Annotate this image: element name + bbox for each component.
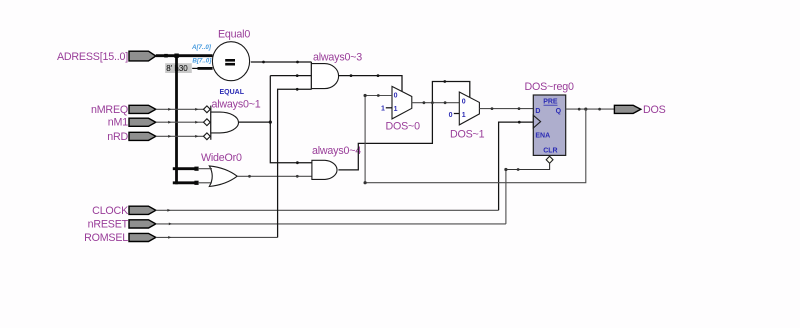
wire DOS~0 output to DOS~1	[412, 101, 460, 104]
svg-text:nMREQ: nMREQ	[91, 104, 128, 116]
svg-text:DOS~0: DOS~0	[386, 120, 421, 132]
svg-text:ROMSEL: ROMSEL	[84, 232, 128, 244]
constant 0 for DOS~1	[449, 112, 460, 119]
svg-text:nRESET: nRESET	[88, 219, 129, 231]
input pin CLOCK	[92, 205, 156, 217]
wire bus stub to WideOr0 input 1	[173, 167, 212, 171]
wire always0~3 output to DOS~0 select	[339, 74, 402, 91]
constant 8'h30	[165, 63, 198, 73]
wire WideOr0 output	[237, 175, 312, 178]
mux DOS~1	[450, 92, 485, 140]
wire DOS~1 output to register D	[479, 107, 533, 110]
or-gate WideOr0	[201, 152, 242, 187]
node CLR bubble	[546, 156, 553, 163]
svg-text:DOS~reg0: DOS~reg0	[525, 81, 574, 93]
svg-text:nM1: nM1	[108, 117, 128, 129]
wire Q feedback loop to DOS~0 input 0	[364, 94, 586, 184]
wire CLR to nRESET riser	[504, 163, 549, 171]
wire Equal0 output to always0~3	[251, 61, 312, 64]
output pin DOS	[614, 104, 665, 116]
input pin nM1	[108, 117, 156, 129]
and-gate always0~4	[312, 145, 361, 180]
and-gate always0~1	[204, 99, 261, 140]
wire always0~1 output	[239, 121, 272, 124]
wire to always0~3 middle input	[270, 74, 311, 164]
svg-text:Equal0: Equal0	[218, 29, 250, 41]
svg-text:always0~4: always0~4	[312, 145, 361, 157]
and-gate always0~3	[311, 51, 362, 89]
svg-text:1: 1	[381, 105, 385, 112]
svg-text:DOS: DOS	[643, 104, 666, 116]
svg-text:Q: Q	[556, 108, 562, 115]
svg-text:B[7..0]: B[7..0]	[192, 58, 212, 65]
svg-text:1: 1	[394, 106, 398, 113]
wire bus stub to WideOr0 input 2	[173, 181, 212, 185]
wire ROMSEL row	[156, 236, 278, 239]
mux DOS~0	[386, 86, 421, 132]
svg-text:1: 1	[462, 112, 466, 119]
svg-text:always0~1: always0~1	[212, 99, 261, 111]
svg-text:ADRESS[15..0]: ADRESS[15..0]	[57, 51, 128, 63]
register DOS~reg0	[525, 81, 574, 156]
input pin nRESET	[88, 219, 156, 231]
svg-text:0: 0	[449, 112, 453, 119]
node bus junction	[174, 54, 178, 58]
svg-text:PRE: PRE	[543, 99, 558, 106]
wire nRD to gate	[156, 135, 204, 138]
input pin ADRESS[15..0]	[57, 51, 156, 63]
wire nM1 to gate	[156, 121, 204, 124]
wire ADRESS bus vertical drop	[175, 56, 178, 185]
wire ROMSEL vertical riser to always0~3	[278, 88, 312, 238]
svg-text:D: D	[535, 108, 540, 115]
wire ADRESS bus horizontal	[156, 54, 213, 58]
wire constant B bus	[198, 67, 213, 70]
input pin nMREQ	[91, 104, 156, 116]
wire nRESET row	[156, 223, 506, 226]
wire CLOCK vertical riser to register clock	[499, 121, 534, 211]
svg-text:CLR: CLR	[543, 148, 557, 155]
svg-text:DOS~1: DOS~1	[450, 128, 485, 140]
svg-text:A[7..0]: A[7..0]	[191, 44, 212, 51]
svg-text:nRD: nRD	[107, 131, 128, 143]
svg-text:0: 0	[462, 98, 466, 105]
wire Q output	[566, 108, 615, 111]
input pin ROMSEL	[84, 232, 156, 244]
svg-text:WideOr0: WideOr0	[201, 152, 242, 164]
op Equal0 equality comparator	[212, 29, 250, 97]
svg-text:CLOCK: CLOCK	[92, 205, 129, 217]
wire nRESET vertical riser to CLR	[505, 170, 507, 224]
constant 1 for DOS~0	[381, 105, 392, 112]
svg-text:0: 0	[394, 92, 398, 99]
wire CLOCK row	[156, 209, 499, 212]
svg-text:EQUAL: EQUAL	[220, 89, 245, 96]
input pin nRD	[107, 131, 156, 143]
wire nMREQ to gate	[156, 108, 204, 111]
svg-text:ENA: ENA	[535, 133, 550, 140]
svg-text:always0~3: always0~3	[313, 51, 362, 63]
wire always0~4 output to DOS~1 select	[338, 80, 469, 170]
wire always0~1 out vertical branch	[270, 76, 312, 163]
node Q feedback junction	[584, 108, 587, 111]
